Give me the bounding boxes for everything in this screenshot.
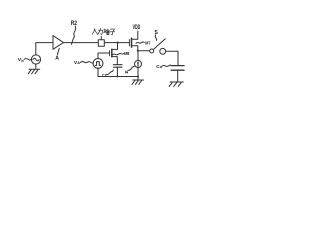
- node junction: [116, 42, 118, 44]
- lead I4: [128, 66, 134, 70]
- wire output node: [138, 50, 150, 52]
- wire node down to M8 drain: [112, 43, 118, 50]
- svg-text:I4: I4: [125, 69, 129, 75]
- capacitor C3: [113, 64, 122, 66]
- label Co: [156, 64, 163, 70]
- resistor R2 label: [71, 21, 78, 27]
- lead Co: [162, 65, 171, 66]
- transistor M7: [128, 39, 130, 46]
- source Vin: [31, 55, 40, 64]
- ground rail: [98, 76, 138, 78]
- svg-text:S: S: [154, 30, 158, 36]
- node rail-I4: [137, 76, 139, 78]
- capacitor Co: [171, 65, 184, 67]
- ground (Co): [169, 82, 183, 86]
- lead A: [58, 48, 60, 54]
- input terminal label (nyuuryoku tanshi): [92, 29, 115, 35]
- label I4: [125, 69, 129, 75]
- source VA: [93, 59, 103, 69]
- label M8: [112, 54, 124, 55]
- label VA: [74, 60, 80, 66]
- svg-text:M7: M7: [145, 41, 150, 47]
- svg-text:VDD: VDD: [133, 24, 141, 31]
- label M7: [136, 42, 144, 43]
- lead R2: [71, 26, 75, 44]
- node rail-C3: [116, 76, 118, 78]
- wire Vin top: [36, 43, 53, 55]
- op-amp A: [53, 36, 64, 50]
- svg-text:in: in: [21, 59, 24, 63]
- ground (I4): [132, 77, 144, 85]
- transistor M8: [109, 51, 111, 56]
- node M7 drain: [137, 50, 139, 52]
- lead S: [155, 35, 156, 41]
- wire VA bottom: [97, 68, 99, 76]
- label Vin: [18, 57, 24, 63]
- svg-text:A: A: [55, 55, 59, 61]
- switch S: [150, 49, 154, 53]
- svg-text:R2: R2: [71, 21, 78, 27]
- wire terminal to M7 gate: [104, 42, 129, 44]
- svg-text:A: A: [77, 60, 80, 65]
- current source I4: [137, 51, 139, 61]
- switch lever: [154, 39, 166, 50]
- lead VA: [80, 62, 93, 64]
- svg-text:M8: M8: [124, 51, 129, 57]
- label VDD: [133, 24, 141, 31]
- wire VA to M8 gate: [98, 53, 110, 59]
- terminal box: [98, 40, 104, 47]
- lead C3: [107, 70, 114, 75]
- lead input terminal: [100, 37, 102, 40]
- wire switch to Co: [166, 51, 178, 65]
- label A: [55, 55, 59, 61]
- ground (Vin): [28, 64, 40, 74]
- wire amp to terminal: [64, 42, 99, 44]
- svg-text:C3: C3: [102, 73, 107, 79]
- lead Vin: [24, 59, 31, 60]
- label C3: [102, 73, 107, 79]
- label S: [154, 30, 158, 36]
